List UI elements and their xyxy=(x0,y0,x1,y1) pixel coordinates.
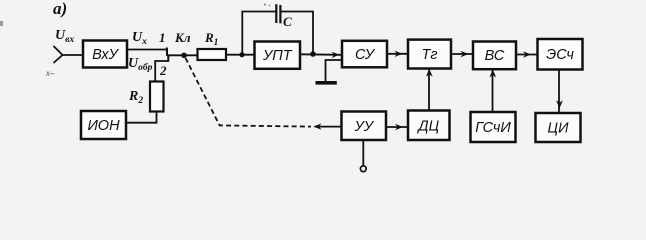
scan speck near capacitor xyxy=(264,4,266,6)
wire ЭСч to ЦИ xyxy=(556,70,563,114)
start terminal wire xyxy=(362,140,364,166)
svg-text:ДЦ: ДЦ xyxy=(416,119,439,135)
scan mark left edge xyxy=(0,21,3,26)
dashed control wire xyxy=(186,58,312,127)
resistor R2 xyxy=(150,82,164,112)
wire R1 to УПТ xyxy=(226,54,255,56)
svg-text:x–: x– xyxy=(45,69,55,78)
svg-text:Кл: Кл xyxy=(174,30,191,45)
wire ВС to ЭСч xyxy=(516,51,538,57)
svg-text:1: 1 xyxy=(159,30,166,45)
feedback wire left branch xyxy=(242,12,276,55)
switch pole wire xyxy=(167,54,198,56)
switch contact 2 bar xyxy=(167,55,169,62)
svg-text:УУ: УУ xyxy=(354,119,375,135)
start terminal circle xyxy=(360,166,366,172)
svg-text:ЭСч: ЭСч xyxy=(546,47,574,63)
wire ВхУ to switch contact 1 xyxy=(127,49,167,51)
svg-text:СУ: СУ xyxy=(355,47,376,63)
svg-text:ИОН: ИОН xyxy=(87,118,120,134)
block УУ xyxy=(342,112,387,141)
svg-text:ЦИ: ЦИ xyxy=(548,121,570,137)
svg-text:Тг: Тг xyxy=(421,47,437,63)
capacitor C xyxy=(276,4,280,23)
input terminal fork xyxy=(54,47,63,63)
wire СУ to Тг xyxy=(387,51,408,57)
switch common node dot xyxy=(181,53,187,59)
node at УПТ output xyxy=(310,51,316,57)
svg-text:ВС: ВС xyxy=(485,48,505,64)
wire УПТ to СУ xyxy=(300,52,342,58)
ground branch wire xyxy=(326,60,343,81)
wire contact 2 to R2 xyxy=(155,61,168,82)
wire R2 to ИОН xyxy=(126,112,157,123)
block ЭСч xyxy=(538,39,583,70)
block СУ xyxy=(342,41,387,68)
wire УУ to switch solid with arrow xyxy=(314,123,342,129)
svg-text:а): а) xyxy=(53,0,67,18)
block ЦИ xyxy=(536,113,581,142)
block УПТ xyxy=(255,42,301,69)
block ВС xyxy=(473,42,516,70)
feedback wire right branch xyxy=(280,12,313,55)
resistor R1 xyxy=(198,49,227,60)
block ГСчИ xyxy=(471,112,516,142)
block ДЦ xyxy=(408,111,450,141)
block Тг xyxy=(408,40,451,69)
svg-text:2: 2 xyxy=(159,63,167,78)
wire ГСчИ to ВС xyxy=(489,69,496,112)
wire Тг to ВС xyxy=(451,51,473,57)
switch contact 1 bar xyxy=(166,48,168,56)
wire input to ВхУ xyxy=(62,54,83,56)
wire ДЦ to Тг xyxy=(426,69,433,111)
node at УПТ input xyxy=(239,52,244,57)
block ИОН xyxy=(81,111,126,139)
ground xyxy=(316,81,337,85)
block ВхУ xyxy=(83,41,127,68)
svg-text:УПТ: УПТ xyxy=(262,48,293,64)
svg-text:ВхУ: ВхУ xyxy=(92,47,119,63)
svg-text:ГСчИ: ГСчИ xyxy=(475,120,511,136)
svg-text:C: C xyxy=(283,14,292,29)
wire УУ to ДЦ xyxy=(386,124,408,130)
